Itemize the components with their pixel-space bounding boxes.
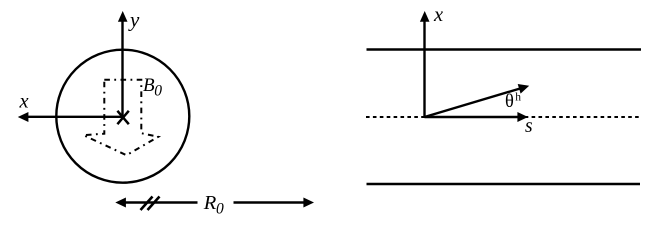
label B0	[143, 75, 162, 99]
label theta^h	[505, 92, 521, 112]
svg-text:x: x	[433, 4, 443, 26]
R0 dimension line (left part with arrowhead)	[115, 198, 197, 208]
B0 field block arrow (dash-dot outline)	[84, 80, 159, 155]
s-axis arrow	[425, 112, 529, 122]
svg-text:s: s	[525, 116, 533, 137]
y-axis	[118, 11, 128, 118]
x-axis	[18, 112, 125, 122]
x-axis (right diagram)	[420, 11, 430, 118]
svg-text:θ: θ	[505, 92, 514, 112]
svg-text:0: 0	[216, 200, 224, 217]
dimension break marks (double slash)	[141, 197, 160, 211]
label R0	[203, 192, 224, 218]
bottom wall	[367, 183, 641, 186]
center marker (field into page cross)	[117, 111, 128, 124]
svg-text:h: h	[515, 92, 521, 104]
svg-text:B: B	[143, 75, 155, 96]
circle (plasma cross-section boundary)	[56, 50, 189, 183]
R0 dimension line (right part with arrowhead)	[234, 198, 315, 208]
helical field direction arrow	[425, 84, 530, 117]
svg-text:y: y	[128, 8, 140, 32]
top wall	[367, 48, 642, 51]
svg-text:x: x	[19, 90, 29, 112]
channel centerline (dashed)	[366, 116, 639, 118]
svg-text:0: 0	[154, 82, 162, 99]
svg-text:R: R	[203, 192, 217, 214]
